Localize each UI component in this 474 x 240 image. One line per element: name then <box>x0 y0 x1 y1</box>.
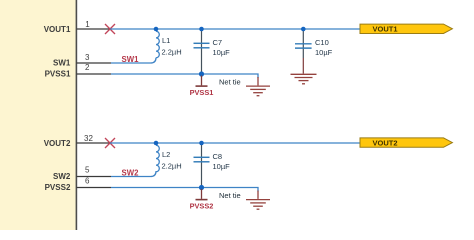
power symbol PVSS1 <box>196 76 208 87</box>
node L2/VOUT2 junction <box>154 141 159 146</box>
svg-text:L2: L2 <box>162 150 170 159</box>
svg-text:10µF: 10µF <box>213 48 231 57</box>
pin stub PVSS1 pin 2 <box>77 73 112 75</box>
wire VOUT1 net <box>110 28 360 30</box>
svg-text:2.2µH: 2.2µH <box>162 47 182 56</box>
pin name SW2 <box>53 172 71 181</box>
pin number 5 <box>85 166 90 175</box>
svg-text:3: 3 <box>85 53 90 62</box>
svg-text:VOUT2: VOUT2 <box>373 138 398 147</box>
ground (net tie, bottom) <box>246 191 270 210</box>
svg-text:VOUT1: VOUT1 <box>373 25 398 34</box>
svg-text:C10: C10 <box>315 38 329 47</box>
node C7/PVSS1 junction <box>199 71 204 76</box>
Net tie label (top) <box>219 77 241 86</box>
svg-text:VOUT1: VOUT1 <box>44 25 71 34</box>
svg-text:1: 1 <box>85 20 90 29</box>
inductor L2 <box>156 145 159 172</box>
node C10/VOUT1 junction <box>301 27 306 32</box>
pin name PVSS2 <box>45 183 71 192</box>
svg-text:VOUT2: VOUT2 <box>44 139 71 148</box>
capacitor C7 <box>194 29 210 74</box>
svg-text:10µF: 10µF <box>315 48 333 57</box>
inductor L1 <box>156 31 159 58</box>
svg-text:SW1: SW1 <box>53 58 71 67</box>
pin name SW1 <box>53 58 71 67</box>
svg-text:C7: C7 <box>213 38 223 47</box>
svg-text:2.2µH: 2.2µH <box>162 161 182 170</box>
C8 label <box>213 152 223 161</box>
capacitor C8 <box>194 143 210 188</box>
wire PVSS1 net <box>111 74 258 78</box>
SW1 net label <box>122 55 140 64</box>
L1 label <box>162 36 170 45</box>
svg-text:6: 6 <box>85 177 90 186</box>
wire VOUT2 net <box>110 142 360 144</box>
svg-text:PVSS2: PVSS2 <box>190 202 214 211</box>
pin name PVSS1 <box>45 69 71 78</box>
pin name VOUT1 <box>44 25 71 34</box>
pin number 2 <box>85 63 90 72</box>
svg-text:SW2: SW2 <box>53 172 71 181</box>
no-connect X on pin 32 <box>105 138 115 148</box>
C7 value 10uF <box>213 48 231 57</box>
svg-text:Net tie: Net tie <box>219 191 241 200</box>
node C7/VOUT1 junction <box>199 27 204 32</box>
ground (C10) <box>291 74 317 84</box>
pin number 1 <box>85 20 90 29</box>
svg-text:C8: C8 <box>213 152 223 161</box>
IC box <box>0 0 76 240</box>
pin stub SW2 pin 5 <box>77 176 112 178</box>
svg-text:10µF: 10µF <box>213 162 231 171</box>
SW2 net label <box>122 169 140 178</box>
node C8/PVSS2 junction <box>199 185 204 190</box>
svg-text:SW1: SW1 <box>122 55 140 64</box>
svg-text:5: 5 <box>85 166 90 175</box>
pin stub VOUT2 pin 32 <box>77 142 111 144</box>
power symbol PVSS2 <box>196 189 208 200</box>
PVSS2 net label <box>190 202 214 211</box>
net flag VOUT2 <box>360 138 452 148</box>
svg-text:PVSS2: PVSS2 <box>45 183 71 192</box>
L2 value 2.2uH <box>162 161 182 170</box>
C8 value 10uF <box>213 162 231 171</box>
svg-text:32: 32 <box>84 134 93 143</box>
node L1/VOUT1 junction <box>154 27 159 32</box>
wire SW1 net <box>111 58 156 63</box>
wire PVSS2 net <box>111 188 258 192</box>
L2 label <box>162 150 170 159</box>
pin name VOUT2 <box>44 139 71 148</box>
ground (net tie, top) <box>246 77 270 96</box>
C10 value 10uF <box>315 48 333 57</box>
svg-text:SW2: SW2 <box>122 169 140 178</box>
pin stub SW1 pin 3 <box>77 62 112 64</box>
capacitor C10 <box>295 29 312 74</box>
svg-text:2: 2 <box>85 63 90 72</box>
svg-text:L1: L1 <box>162 36 170 45</box>
pin stub VOUT1 pin 1 <box>77 28 111 30</box>
pin number 6 <box>85 177 90 186</box>
pin number 3 <box>85 53 90 62</box>
svg-text:Net tie: Net tie <box>219 77 241 86</box>
svg-text:PVSS1: PVSS1 <box>45 69 71 78</box>
net flag VOUT1 <box>360 24 452 33</box>
wire SW2 net <box>111 171 156 176</box>
Net tie label (bottom) <box>219 191 241 200</box>
node C8/VOUT2 junction <box>199 141 204 146</box>
no-connect X on pin 1 <box>105 24 115 34</box>
C10 label <box>315 38 329 47</box>
PVSS1 net label <box>190 88 214 97</box>
C7 label <box>213 38 223 47</box>
svg-text:PVSS1: PVSS1 <box>190 88 214 97</box>
L1 value 2.2uH <box>162 47 182 56</box>
pin number 32 <box>84 134 93 143</box>
pin stub PVSS2 pin 6 <box>77 187 112 189</box>
